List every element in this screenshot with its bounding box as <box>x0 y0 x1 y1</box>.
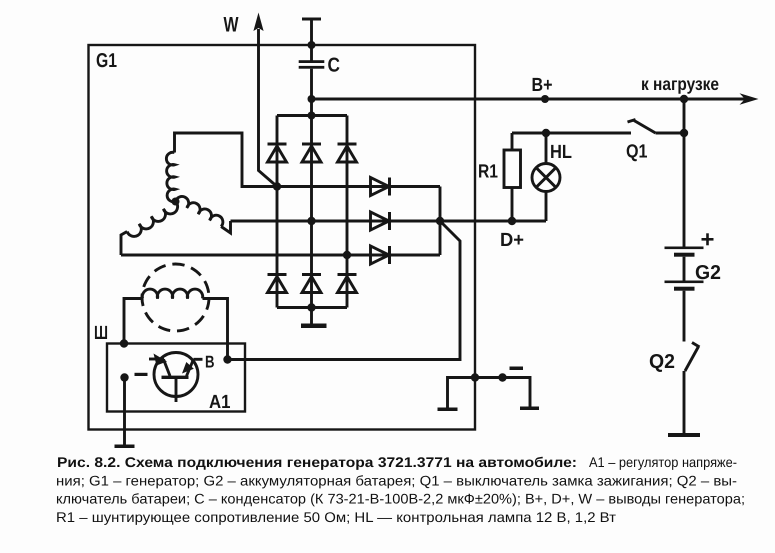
node generator case terminal <box>471 373 479 381</box>
diode VD2 (positive, phase2) <box>302 144 321 162</box>
minus sign regulator <box>135 373 148 376</box>
svg-text:А1 – регулятор напряже-: А1 – регулятор напряже- <box>589 454 737 470</box>
switch Q2 <box>684 343 700 434</box>
node B terminal <box>223 355 231 363</box>
wire phase bus 1 <box>276 116 279 308</box>
rotor field winding circle (dashed) <box>142 264 209 331</box>
node capacitor-to-case junction <box>308 41 316 49</box>
node regulator minus terminal <box>120 373 128 381</box>
wire rotor left lead <box>124 299 143 344</box>
svg-text:ключатель батареи; С – конден: ключатель батареи; С – конденсатор (К 73… <box>56 491 745 507</box>
diode VD1 (positive, phase1) <box>268 144 287 162</box>
chassis terminal bar above capacitor <box>302 18 321 21</box>
wire rectifier row 1 <box>277 185 440 188</box>
node rectifier top rail junction <box>308 112 316 120</box>
capacitor C plates <box>299 60 325 69</box>
wire R1 top to switch Q1 <box>512 132 631 135</box>
svg-text:D+: D+ <box>500 230 524 251</box>
wire stator phase A connection <box>175 133 278 187</box>
resistor R1 <box>504 133 521 221</box>
node Ш terminal <box>120 339 128 347</box>
svg-text:A1: A1 <box>209 392 231 413</box>
arrow W output <box>253 13 263 32</box>
diode VD4 (negative, phase1) <box>268 275 287 293</box>
wire rotor right lead <box>203 299 228 360</box>
wire battery top <box>683 99 686 247</box>
switch Q1 <box>628 120 685 134</box>
wire lower rail <box>277 306 347 309</box>
regulator box A1 <box>107 344 245 412</box>
node phase B to bus3 <box>343 251 351 259</box>
ground regulator <box>115 445 135 449</box>
ground generator case <box>438 408 458 412</box>
svg-text:C: C <box>328 55 341 77</box>
wire phase C tail <box>221 221 230 233</box>
caption line 1 <box>56 454 745 525</box>
chassis terminal battery minus <box>668 433 700 437</box>
svg-text:Q2: Q2 <box>649 351 675 373</box>
wire case ground right <box>475 378 530 407</box>
node lower rail center <box>307 303 315 311</box>
wire capacitor top lead <box>310 19 313 61</box>
wire rectifier row 3 <box>121 254 440 257</box>
node HL top <box>542 129 550 137</box>
svg-text:к нагрузке: к нагрузке <box>641 74 719 94</box>
stator winding phase B <box>127 202 178 237</box>
node B+ <box>541 95 549 103</box>
node B+ start <box>308 95 316 103</box>
arrow to load <box>740 93 759 105</box>
svg-text:Q1: Q1 <box>626 142 648 163</box>
diode VD7 (field, row1) <box>371 178 390 196</box>
rotor winding coil <box>142 289 202 298</box>
stator winding phase C <box>176 197 223 227</box>
lamp HL <box>532 133 560 221</box>
svg-text:G1: G1 <box>96 50 117 72</box>
wire capacitor bottom lead <box>310 69 313 117</box>
transistor Q (regulator output) <box>149 353 203 403</box>
battery G2 <box>665 247 704 291</box>
node minus output terminal <box>498 373 506 381</box>
wire phase bus 2 <box>310 116 313 308</box>
minus sign output <box>510 367 524 371</box>
wire phase B tail <box>121 232 127 256</box>
node R1 bottom / D+ <box>508 217 516 225</box>
stator winding phase A <box>166 152 175 202</box>
wire regulator to ground <box>123 378 126 445</box>
diode VD6 (negative, phase3) <box>338 275 357 293</box>
wire W output with bend <box>259 29 278 187</box>
svg-text:B+: B+ <box>532 75 553 96</box>
svg-text:ния; G1 – генератор; G2 –: ния; G1 – генератор; G2 – аккумуляторная… <box>56 472 737 488</box>
wire rectifier top rail <box>277 114 347 117</box>
ground battery side <box>520 407 539 411</box>
ground rectifier <box>301 324 327 329</box>
svg-text:Ш: Ш <box>94 323 108 344</box>
diode VD9 (field, row3) <box>371 246 390 264</box>
node phase1 / W junction <box>273 182 281 190</box>
diode VD5 (negative, phase2) <box>302 275 321 293</box>
svg-text:G2: G2 <box>695 262 721 284</box>
wire phase bus 3 <box>346 116 349 308</box>
node D+ junction <box>436 217 444 225</box>
wire ground stub rectifier <box>310 308 313 324</box>
svg-text:Рис. 8.2. Схема подключения г: Рис. 8.2. Схема подключения генератора 3… <box>57 454 577 470</box>
diode VD8 (field, row2) <box>371 212 390 230</box>
wire right collector vertical of rows <box>439 187 442 256</box>
diode VD3 (positive, phase3) <box>338 144 357 162</box>
wire battery to Q2 <box>683 291 686 342</box>
generator box G1 <box>89 45 476 430</box>
svg-text:HL: HL <box>550 142 572 163</box>
wire D+ to regulator diagonal <box>228 221 461 360</box>
svg-text:B: B <box>205 353 215 372</box>
label + battery <box>702 233 714 245</box>
node phase C to bus2 <box>307 217 315 225</box>
node Q1 to battery <box>680 129 688 137</box>
node load junction <box>680 95 688 103</box>
wire B+ rail <box>312 98 747 101</box>
wire case ground left <box>448 378 476 408</box>
svg-text:R1: R1 <box>478 162 498 183</box>
svg-text:R1 – шунтирующее сопротивлен: R1 – шунтирующее сопротивление 50 Ом; HL… <box>56 509 617 525</box>
node stator star point <box>172 198 180 206</box>
wire rectifier row 2 (D+ row) <box>231 220 547 223</box>
svg-text:W: W <box>224 14 239 37</box>
